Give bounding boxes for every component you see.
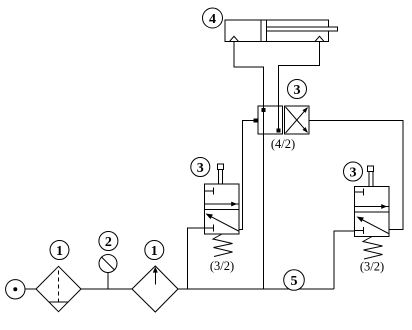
filter F2 (one-way unit), item 1 bbox=[132, 266, 178, 312]
svg-text:5: 5 bbox=[291, 274, 298, 289]
junction dot V3 port A bbox=[261, 108, 265, 112]
svg-text:3: 3 bbox=[294, 83, 301, 98]
valve V2 3/2 body, item 3 bbox=[355, 187, 390, 237]
wire rail to valve V1 inlet bbox=[188, 228, 205, 289]
label circle 1 (filter F2) bbox=[145, 241, 164, 260]
node 5 (rail label) bbox=[284, 270, 305, 291]
cylinder C1 left port arrow bbox=[230, 36, 239, 41]
wire V3 right pilot to V2 outlet bbox=[309, 121, 403, 230]
wire source to filter F1 bbox=[25, 288, 36, 290]
svg-text:3: 3 bbox=[350, 165, 357, 180]
valve V1 3/2 body, item 3 bbox=[205, 184, 240, 234]
filter F1 (water separator), item 1 bbox=[36, 266, 81, 311]
cylinder C1 piston rod bbox=[267, 27, 338, 31]
cylinder C1 body, item 4 bbox=[225, 20, 329, 42]
valve V3 4/2 body, item 3 bbox=[258, 106, 309, 134]
label circle 3 (valve V2) bbox=[344, 162, 363, 181]
wire V1 outlet to V3 left pilot bbox=[239, 121, 258, 230]
wire cylinder right port to V3 bbox=[279, 41, 320, 130]
cylinder C1 right port arrow bbox=[315, 36, 324, 41]
valve V1 return spring bbox=[213, 234, 233, 257]
label circle 1 (filter F1) bbox=[50, 241, 69, 260]
svg-text:(3/2): (3/2) bbox=[210, 259, 234, 273]
supply rail (bottom bus) bbox=[178, 288, 334, 290]
air source P bbox=[6, 280, 25, 299]
label circle 2 (gauge) bbox=[99, 232, 118, 251]
valve V1 pushbutton stem bbox=[217, 164, 223, 184]
wire rail to valve V2 inlet bbox=[334, 231, 355, 289]
svg-text:4: 4 bbox=[209, 12, 216, 27]
valve V2 pushbutton stem bbox=[367, 166, 373, 187]
wire cylinder left port through V3 to rail bbox=[234, 41, 264, 289]
junction dot V3 left pilot bbox=[253, 118, 257, 122]
label circle 3 (valve V3) bbox=[288, 80, 307, 99]
svg-text:1: 1 bbox=[56, 244, 63, 259]
svg-text:3: 3 bbox=[197, 161, 204, 176]
label circle 4 (cylinder C1) bbox=[203, 8, 223, 28]
pressure gauge G, item 2 bbox=[99, 255, 117, 290]
svg-text:1: 1 bbox=[151, 244, 158, 259]
valve V2 return spring bbox=[363, 237, 383, 260]
svg-text:2: 2 bbox=[105, 235, 112, 250]
wire filter F1 to filter F2 bbox=[81, 288, 132, 290]
svg-text:(4/2): (4/2) bbox=[271, 137, 295, 151]
svg-text:(3/2): (3/2) bbox=[360, 259, 384, 273]
label circle 3 (valve V1) bbox=[191, 158, 210, 177]
junction dot V3 port B bbox=[276, 128, 280, 132]
